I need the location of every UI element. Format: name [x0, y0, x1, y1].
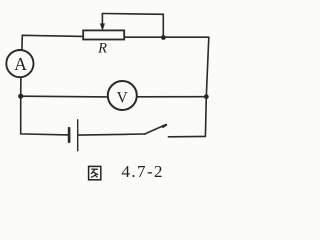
wire battery to switch pivot — [79, 134, 145, 135]
switch S1 lever tip blob — [162, 124, 168, 129]
rheostat slider arrow — [100, 14, 104, 31]
node junction dot left (ammeter branch) — [18, 94, 23, 99]
wire node C to voltmeter left — [21, 95, 108, 98]
wire voltmeter right to node B — [137, 96, 207, 98]
caption character tu (figure) drawn as paths — [89, 166, 101, 179]
battery B1 positive plate (long thin) — [77, 120, 79, 151]
switch S1 lever — [145, 125, 166, 134]
wire right side vertical upper — [206, 37, 209, 96]
wire switch right contact to bottom-right corner — [168, 135, 205, 137]
svg-text:R: R — [97, 40, 107, 56]
battery B1 negative plate (short thick) — [68, 128, 71, 142]
svg-text:4.7-2: 4.7-2 — [122, 162, 164, 181]
wire ammeter bottom to node C — [20, 77, 22, 96]
voltmeter V1 circle — [108, 81, 137, 110]
svg-text:A: A — [14, 54, 27, 74]
wire node C down to battery — [21, 96, 68, 135]
wire slider to junction (top loop) — [102, 14, 163, 38]
wire rheostat right to top-right corner — [124, 36, 209, 38]
wire ammeter top to rheostat left — [22, 35, 83, 50]
rheostat R1 body — [83, 30, 124, 39]
svg-text:V: V — [117, 90, 129, 107]
node junction dot right (voltmeter tap) — [204, 94, 209, 99]
ammeter A1 circle — [6, 50, 33, 77]
node junction dot top (slider tap) — [161, 35, 166, 40]
wire right side vertical lower — [204, 97, 207, 137]
